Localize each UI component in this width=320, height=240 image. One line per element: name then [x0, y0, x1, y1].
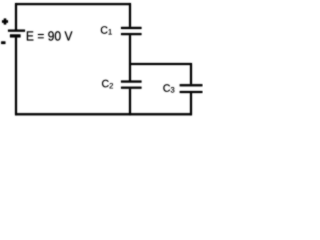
circuit artwork core layer	[1, 3, 202, 115]
circuit artwork soft layer	[1, 3, 202, 115]
